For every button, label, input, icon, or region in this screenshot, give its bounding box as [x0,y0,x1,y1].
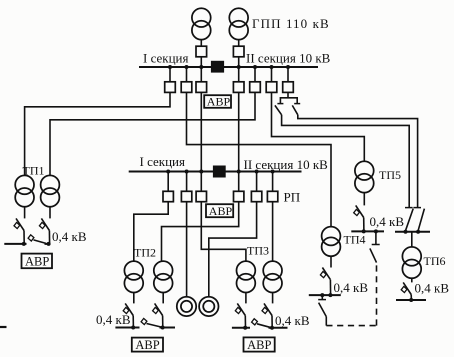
label I sektsiya (RP bus) [140,154,186,169]
breaker S5 (GPP sec.II feeder to TP1-right) [250,67,261,92]
node on RP bus x=238.7 [237,170,241,174]
breaker R2 (RP sec.I feeder to motor M1) [181,172,191,202]
bus TP5 0.4 kV [351,230,384,232]
breaker Q1 (GPP T1 incomer, square) [196,46,207,57]
bus TP4 0.4 kV [309,294,341,296]
node TP4 bus (reserve) [320,293,324,297]
transformer GPP T1 (110/10 kV, left) [192,8,211,39]
svg-text:0,4 кВ: 0,4 кВ [334,280,369,295]
node on GPP bus x=255 [253,65,257,69]
node TP3 bus right [270,326,274,330]
tick QS-b [294,103,300,105]
wire R5 to motor M2 [209,202,257,297]
tick QS-a [277,103,283,105]
transformer TP6 [402,247,421,278]
node on RP bus x=201.3 [199,170,203,174]
wire TP4 to switch [330,256,332,267]
breaker TP3 right 0.4kV [262,303,272,327]
label TP2 [134,246,156,260]
line switch QS-a header [280,98,297,103]
node on GPP bus x=170 [168,65,172,69]
label TP5 [379,168,401,182]
wire T1 to breaker [200,40,202,47]
svg-text:АВР: АВР [247,338,271,352]
reserve switch TP4 side [318,295,326,317]
svg-text:АВР: АВР [25,255,49,269]
breaker S7 (GPP sec.II feeder to TP6 lines) [283,67,294,92]
breaker R5 (RP sec.II feeder to motor M2) [251,172,261,202]
wire TP2-T2 to switch [162,293,164,304]
breaker S3 (GPP sec.I feeder to RP sec.I) [196,67,207,92]
wire TP1-T1 to switch [24,207,26,219]
wire S6 to TP5 [272,92,365,161]
wire TP2-T1 to switch [133,293,135,304]
wire QS-a to TP6 left line [282,115,410,207]
wire TP5 to switch [363,193,365,206]
tie switch TP1 0.4kV [28,235,46,244]
transformer TP3-T1 [237,261,256,292]
node TP6 tap right [416,230,420,234]
breaker S1 (GPP sec.I feeder to TP1-left) [165,67,176,92]
svg-text:ГПП 110 кВ: ГПП 110 кВ [252,16,330,31]
transformer GPP T2 (110/10 kV, right) [229,8,248,39]
node TP3 bus left [243,326,247,330]
blade QS-a [275,105,282,114]
node TP6 tap left [404,230,408,234]
dashed reserve jumper TP4-TP5 (0.4 kV) [326,265,376,326]
node TP5 bus (reserve) [374,229,378,233]
disconnector TP6 line-a [405,208,413,231]
breaker R4 (RP sec.II feeder to TP2-right) [234,172,244,202]
wire TP1-T2 to switch [49,207,51,219]
breaker S6 (GPP sec.II feeder to TP5) [266,67,277,92]
wire TP6 tap to transformer [411,232,413,247]
blade QS-b [292,105,298,114]
wire R4 to TP2-right [162,202,239,261]
wire QS-b to TP6 right line [298,115,418,207]
svg-text:АВР: АВР [209,204,233,218]
breaker TP6 0.4kV [401,282,411,300]
svg-text:0,4 кВ: 0,4 кВ [275,313,310,328]
breaker R1 (RP sec.I feeder to TP2-left) [163,172,173,202]
disconnector TP6 line-b [413,208,424,231]
wire TP3-T2 to switch [272,293,274,304]
transformer TP1-T1 [15,175,34,206]
label 0.4 kV TP4 [334,280,369,295]
node TP1 bus left [22,242,26,246]
svg-text:0,4 кВ: 0,4 кВ [415,281,450,296]
transformer TP5 [355,161,374,192]
bus TP2 0.4 kV [115,327,175,329]
transformer TP1-T2 [41,175,60,206]
svg-text:0,4 кВ: 0,4 кВ [96,312,131,327]
motor M2 (HV motor, double circle) [199,297,218,316]
node on RP bus x=272.6 [271,170,275,174]
label II sektsiya 10 kV (RP bus) [244,157,329,172]
node TP2 bus right [161,326,165,330]
wire S3 to RP bus I [200,92,202,170]
wire R3 to TP3-left [201,202,246,261]
label RP [284,190,301,205]
node on GPP bus x=201.3 [199,65,203,69]
wire Q1 to bus I [200,57,202,67]
svg-text:I секция: I секция [140,154,186,169]
wire Q2 to bus II [238,57,240,67]
label 0.4 kV TP3 [275,313,310,328]
svg-text:0,4 кВ: 0,4 кВ [370,214,405,229]
bus TP1 0.4 kV [4,243,50,245]
wire TP3-T1 to switch [245,293,247,304]
transformer TP2-T1 [124,261,143,292]
wire S4 to RP bus II [238,92,240,170]
svg-text:I секция: I секция [143,51,189,66]
svg-text:II секция 10 кВ: II секция 10 кВ [246,51,331,66]
breaker Q2 (GPP T2 incomer, square) [233,46,244,57]
wire S5 to TP1-right [50,92,255,175]
breaker R6 (RP sec.II feeder to TP3-right) [267,172,277,202]
AVR box at TP2 [132,338,163,353]
breaker TP3 left 0.4kV [235,303,245,327]
bus TP6 0.4 kV [396,299,426,301]
node TP2 bus left [131,326,135,330]
AVR box at TP3 [244,337,275,352]
svg-text:ТП4: ТП4 [344,233,366,247]
svg-text:0,4 кВ: 0,4 кВ [52,229,87,244]
AVR box at GPP bus [204,95,231,109]
reserve switch TP5 side [370,231,380,262]
wire R1 to TP2-left [134,202,168,261]
svg-text:ТП3: ТП3 [247,244,269,258]
motor M1 (HV motor, double circle) [177,297,196,316]
wire S1 to TP1-left [25,92,170,175]
breaker TP1 right 0.4kV [39,218,49,244]
node TP5 bus (breaker) [362,229,366,233]
wire T2 to breaker [238,40,240,47]
breaker S4 (GPP sec.II feeder to RP sec.II) [233,67,244,92]
node on RP bus x=168.2 [166,170,170,174]
bus RP 10 kV (sections I and II) [129,171,302,173]
section breaker (closed tie, black square) on GPP bus [211,61,223,72]
bus TP6 10 kV tap [395,231,430,233]
tie switch TP3 0.4kV [252,319,270,328]
node on GPP bus x=288 [286,65,290,69]
bus TP3 0.4 kV [232,327,288,329]
wire R6 to TP3-right [272,202,274,261]
label 0.4 kV TP1 [52,229,87,244]
label II sektsiya 10 kV (GPP bus) [246,51,331,66]
node on RP bus x=186.6 [185,170,189,174]
breaker R3 (RP sec.I feeder to TP3-left) [196,172,206,202]
tie switch TP2 0.4kV [141,318,161,327]
breaker TP4 0.4kV [320,268,330,296]
wire S2 trunk to TP4 [187,92,332,226]
node TP6 bus [409,298,413,302]
wire TP6 to switch [411,278,413,282]
section switch (black square) on RP bus [213,166,225,177]
label TP6 [424,254,446,268]
wire R2 to motor M1 [186,202,188,297]
transformer TP2-T2 [154,261,173,292]
label TP3 [247,244,269,258]
label 0.4 kV TP2 [96,312,131,327]
breaker TP2 left 0.4kV [123,303,133,327]
svg-text:ТП2: ТП2 [134,246,156,260]
svg-text:АВР: АВР [135,338,159,352]
node on GPP bus x=238.7 [237,65,241,69]
label TP4 [344,233,366,247]
label GPP 110 kV [252,16,330,31]
label 0.4 kV TP5 [370,214,405,229]
AVR box at RP [206,204,233,218]
breaker TP5 0.4kV [354,205,364,231]
label TP1 [23,164,45,178]
transformer TP4 [322,227,341,257]
breaker S2 (GPP sec.I feeder to TP4 trunk) [181,67,192,92]
node on GPP bus x=186.5 [185,65,189,69]
breaker TP1 left 0.4kV [14,218,24,244]
bus GPP 10 kV (sections I and II) [139,66,318,68]
node on RP bus x=256.6 [255,170,259,174]
svg-text:АВР: АВР [207,95,231,109]
node on GPP bus x=271.5 [270,65,274,69]
label 0.4 kV TP6 [415,281,450,296]
breaker TP2 right 0.4kV [153,303,163,327]
svg-text:ТП5: ТП5 [379,168,401,182]
AVR box at TP1 [22,254,53,269]
wire stub at left page edge [0,326,7,328]
transformer TP3-T2 [263,261,282,292]
node TP4 bus (breaker) [328,293,332,297]
node TP1 bus right [47,242,51,246]
wire S7 stub [287,92,289,97]
label I sektsiya (GPP bus) [143,51,189,66]
svg-text:ТП6: ТП6 [424,254,446,268]
svg-text:РП: РП [284,190,301,205]
